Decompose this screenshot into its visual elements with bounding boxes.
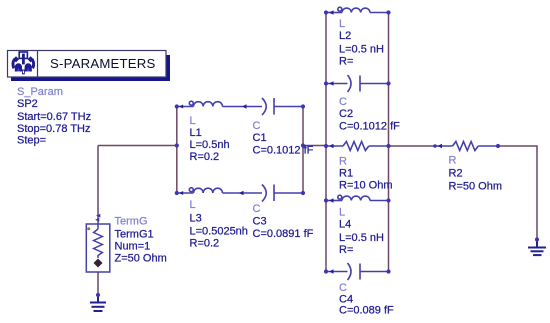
svg-text:TermG: TermG (115, 216, 148, 228)
port TermG1 (86, 224, 110, 272)
resistor R1 (326, 142, 389, 151)
wire main horizontal from TermG corner to section1 left rail (98, 145, 177, 147)
svg-text:R=10 Ohm: R=10 Ohm (339, 180, 393, 192)
svg-text:L=0.5025nh: L=0.5025nh (190, 226, 248, 238)
svg-text:L=0.5nh: L=0.5nh (190, 139, 230, 151)
inductor L4 (326, 195, 389, 200)
svg-text:L3: L3 (190, 213, 202, 225)
svg-text:Num=1: Num=1 (115, 241, 151, 253)
svg-text:R=50 Ohm: R=50 Ohm (449, 181, 503, 193)
inductor L3 (177, 188, 262, 193)
S-PARAMETERS sim control box (8, 51, 171, 82)
label C4 (339, 282, 394, 317)
svg-text:Step=: Step= (17, 135, 46, 147)
TermG1 polarity diamond (94, 259, 103, 268)
capacitor C3 (262, 185, 303, 202)
wire R2 to right ground corner (498, 146, 537, 240)
svg-text:Z=50 Ohm: Z=50 Ohm (115, 253, 167, 265)
svg-text:C=0.0891 fF: C=0.0891 fF (253, 228, 314, 240)
junction dots section2 (324, 10, 391, 273)
svg-text:C=0.089 fF: C=0.089 fF (339, 305, 394, 317)
TermG1 pin-1 dot (87, 227, 90, 230)
capacitor C4 (326, 263, 389, 280)
svg-text:R1: R1 (339, 168, 353, 180)
label R1 (339, 156, 393, 192)
svg-text:C: C (253, 203, 261, 215)
svg-text:TermG1: TermG1 (115, 229, 154, 241)
svg-text:R: R (339, 156, 347, 168)
svg-text:L2: L2 (339, 30, 351, 42)
svg-text:L: L (339, 18, 345, 30)
ground pin dot right (535, 237, 539, 241)
label TermG1 (115, 216, 167, 265)
ground below TermG1 (90, 295, 106, 311)
wire section1 left rail (176, 107, 178, 194)
svg-text:L: L (190, 199, 196, 211)
svg-text:L: L (339, 207, 345, 219)
label C1 (253, 120, 314, 157)
svg-text:SP2: SP2 (17, 98, 38, 110)
S-PARAMETERS title (50, 56, 155, 71)
svg-text:L=0.5 nH: L=0.5 nH (339, 232, 384, 244)
label L3 (190, 199, 248, 250)
svg-text:C: C (339, 282, 347, 294)
label L4 (339, 207, 384, 257)
wire section1 right rail (302, 107, 304, 194)
svg-text:L4: L4 (339, 219, 351, 231)
svg-text:C3: C3 (253, 216, 267, 228)
junction dots section1 (175, 104, 305, 195)
svg-text:L: L (190, 115, 196, 127)
ground right of R2 (528, 240, 546, 256)
label C2 (339, 96, 400, 133)
wire section2 right rail to R2 (389, 145, 436, 147)
svg-text:Stop=0.78 THz: Stop=0.78 THz (17, 123, 90, 135)
svg-text:C=0.1012 fF: C=0.1012 fF (339, 121, 400, 133)
svg-text:C1: C1 (253, 132, 267, 144)
wire section2 left rail (325, 13, 327, 272)
wire-end arrows (179, 10, 442, 273)
inductor L2 (326, 7, 389, 12)
label R2 (449, 155, 503, 193)
capacitor C2 (326, 75, 389, 92)
resistor R2 (435, 142, 498, 151)
wire TermG vertical drop (97, 146, 99, 225)
svg-text:L=0.5 nH: L=0.5 nH (339, 44, 384, 56)
svg-text:C=0.1012 fF: C=0.1012 fF (253, 145, 314, 157)
S-PARAMETERS icon (11, 52, 35, 74)
svg-text:R=0.2: R=0.2 (190, 151, 220, 163)
capacitor C1 (262, 98, 303, 115)
label L2 (339, 18, 384, 68)
label L1 (190, 115, 230, 163)
svg-text:S_Param: S_Param (17, 86, 63, 98)
ground pin dot TermG (96, 293, 100, 297)
TermG1 pin arrow above box (95, 214, 100, 222)
svg-text:C: C (253, 120, 261, 132)
wire section2 right rail (388, 13, 390, 272)
inductor L1 (177, 101, 262, 106)
svg-text:R=: R= (339, 244, 353, 256)
svg-text:S-PARAMETERS: S-PARAMETERS (50, 56, 155, 71)
svg-text:R2: R2 (449, 168, 463, 180)
svg-text:C: C (339, 96, 347, 108)
svg-text:Start=0.67 THz: Start=0.67 THz (17, 111, 91, 123)
label C3 (253, 203, 314, 240)
svg-text:R=0.2: R=0.2 (190, 238, 220, 250)
wire link section1 to section2 (303, 145, 326, 147)
label S_Param block (17, 86, 91, 147)
junction dots R2 wire (433, 144, 500, 148)
svg-text:L1: L1 (190, 127, 202, 139)
svg-text:R=: R= (339, 56, 353, 68)
wire TermG bottom to ground (97, 272, 99, 295)
svg-text:R: R (449, 155, 457, 167)
svg-text:C2: C2 (339, 108, 353, 120)
